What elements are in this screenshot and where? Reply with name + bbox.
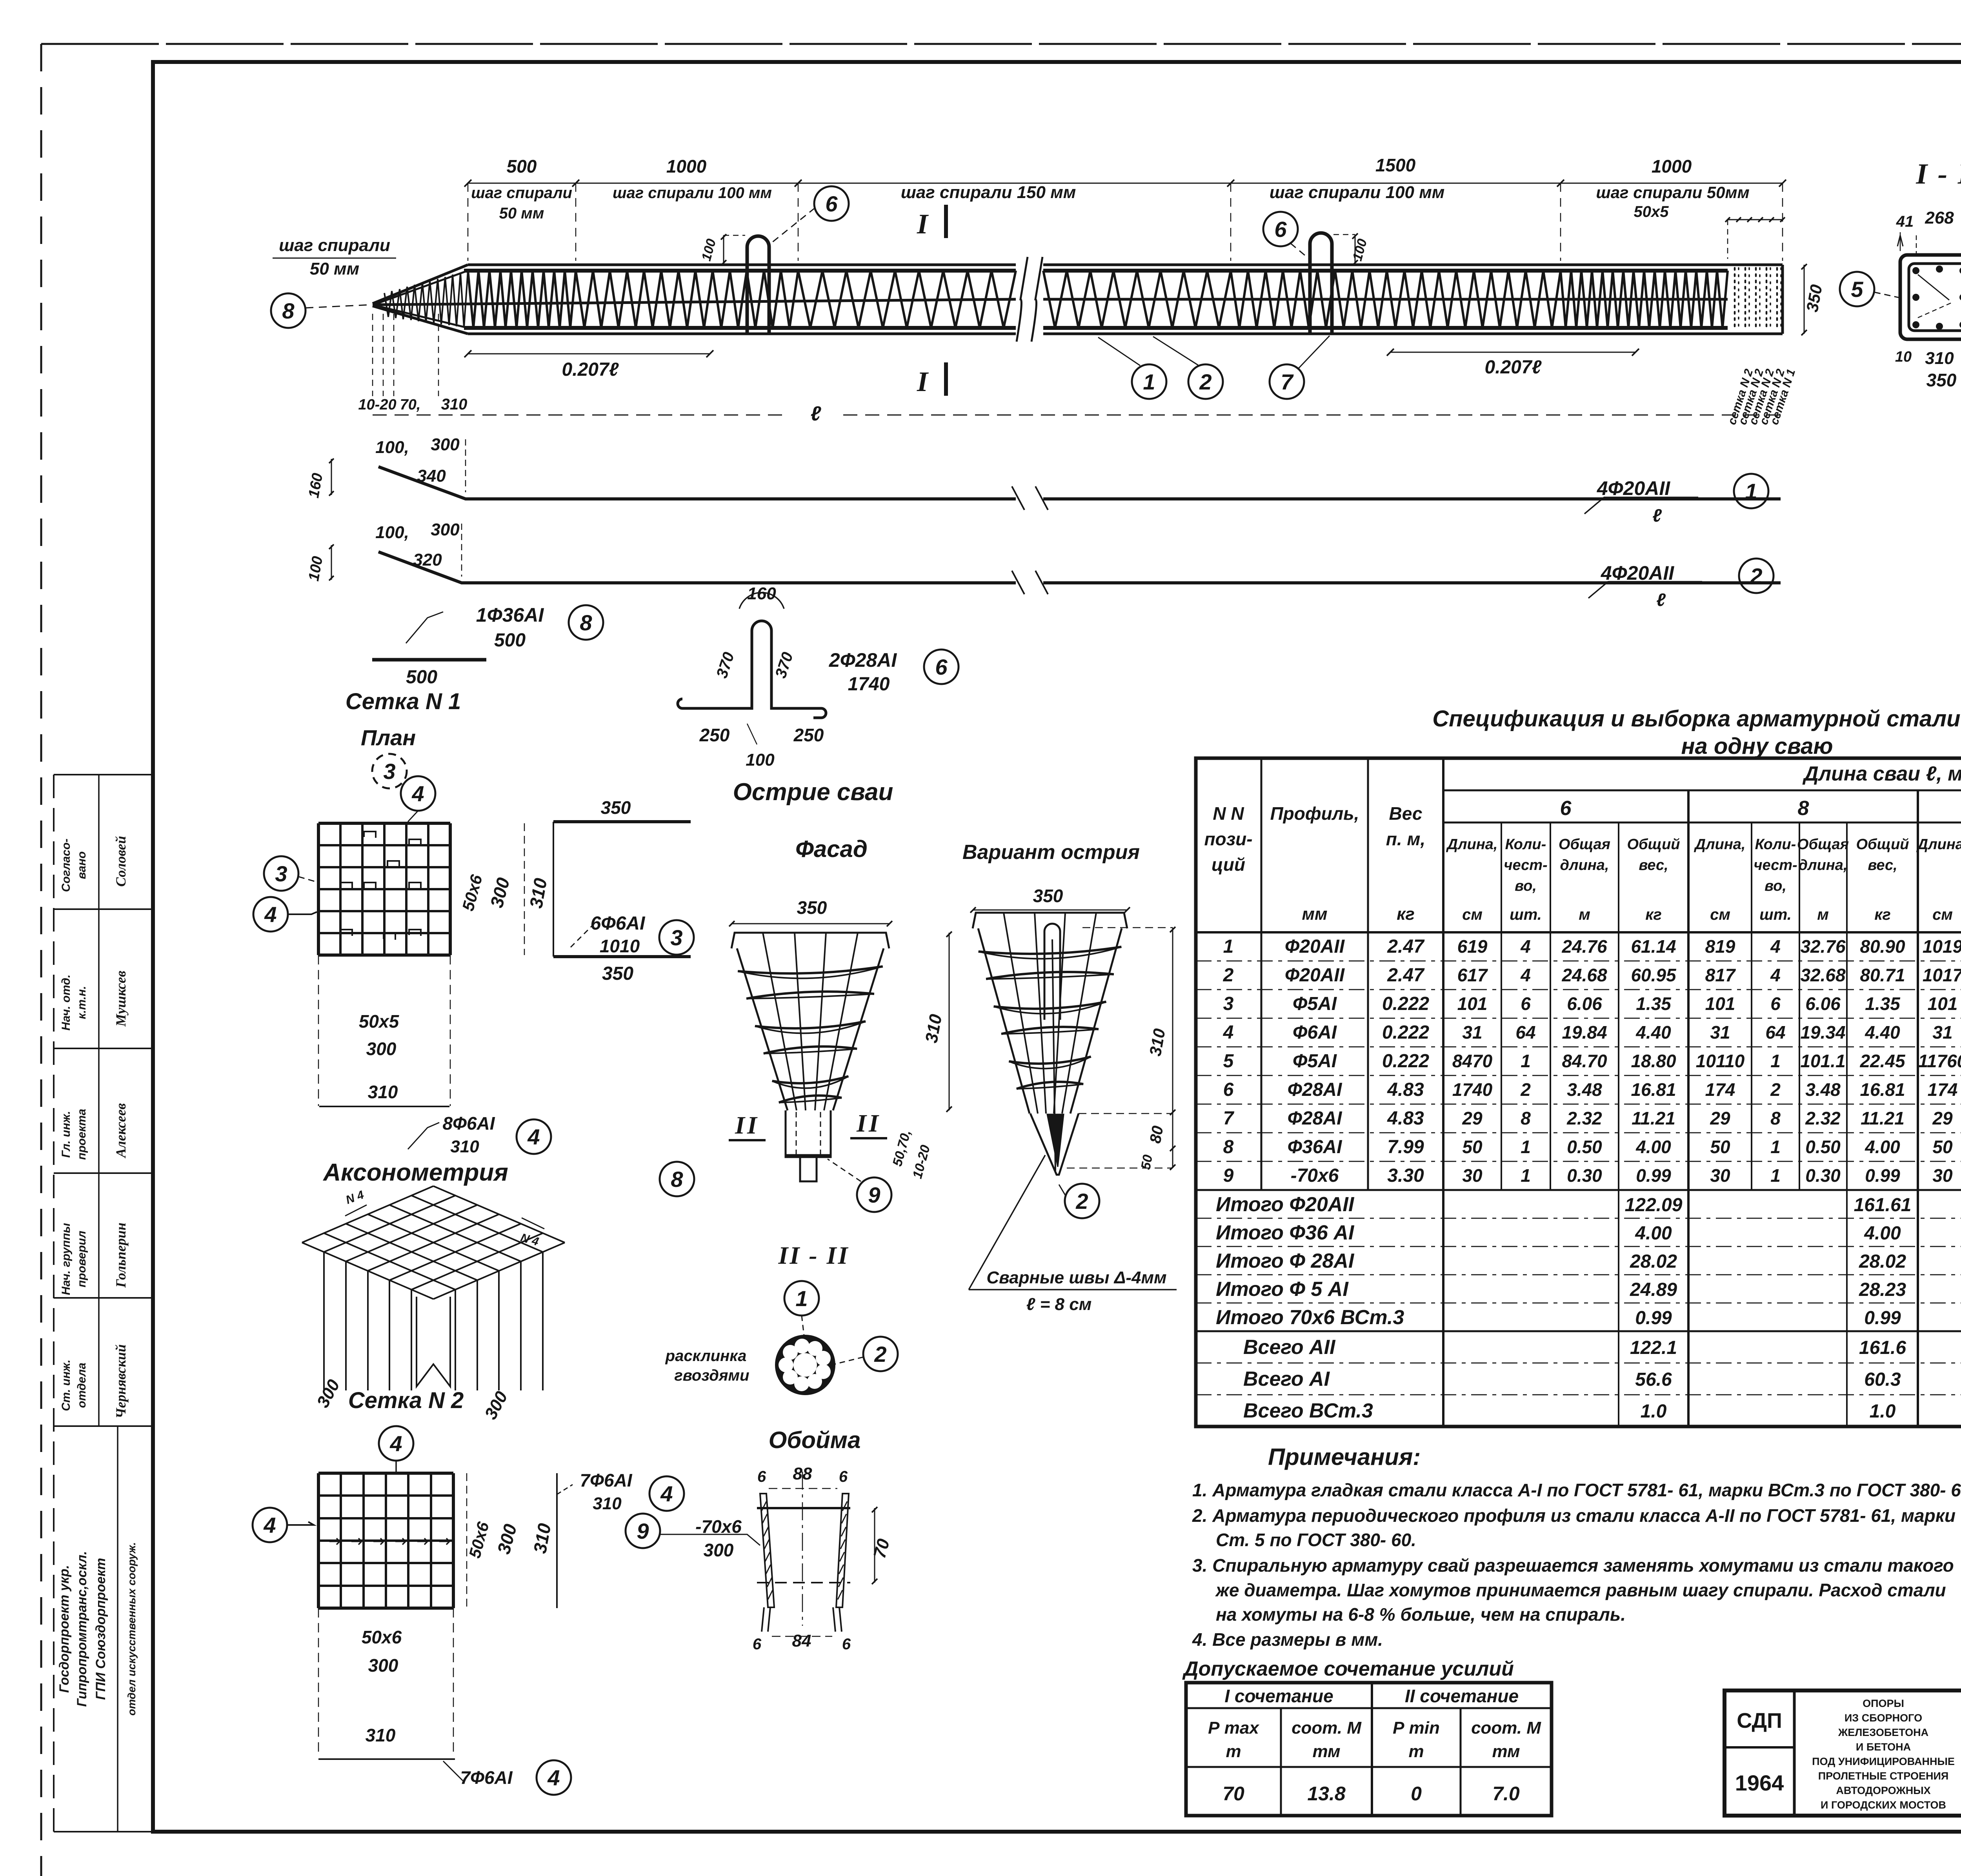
svg-text:3. Спиральную арматуру сва: 3. Спиральную арматуру свай разрешается … — [1192, 1555, 1954, 1576]
svg-text:Мушксев: Мушксев — [113, 971, 129, 1027]
dimension line top — [468, 183, 1783, 184]
svg-text:50х5: 50х5 — [359, 1011, 400, 1032]
svg-text:Сварные швы Δ-4мм: Сварные швы Δ-4мм — [986, 1268, 1166, 1287]
spiral zigzag 100mm right — [1231, 271, 1561, 328]
svg-text:Острие сваи: Острие сваи — [733, 779, 893, 806]
svg-text:4.83: 4.83 — [1387, 1079, 1424, 1100]
svg-text:Вариант острия: Вариант острия — [962, 841, 1140, 864]
svg-text:161.61: 161.61 — [1854, 1195, 1912, 1215]
svg-text:500: 500 — [507, 156, 537, 177]
svg-text:тм: тм — [1492, 1742, 1520, 1761]
N1 bottom dims — [318, 955, 319, 1106]
svg-text:проверил: проверил — [75, 1230, 88, 1287]
svg-text:350: 350 — [602, 963, 633, 984]
svg-text:80.71: 80.71 — [1860, 965, 1905, 985]
svg-text:6.06: 6.06 — [1805, 993, 1841, 1014]
svg-text:кг: кг — [1397, 904, 1415, 924]
svg-text:чест-: чест- — [1504, 857, 1547, 873]
svg-text:ЖЕЛЕЗОБЕТОНА: ЖЕЛЕЗОБЕТОНА — [1838, 1727, 1928, 1738]
svg-text:7: 7 — [1223, 1108, 1235, 1129]
callout 4 above N2 — [379, 1426, 413, 1461]
svg-text:4: 4 — [1520, 965, 1531, 985]
svg-text:30: 30 — [1710, 1165, 1730, 1186]
svg-text:101.1: 101.1 — [1800, 1051, 1845, 1071]
svg-text:310: 310 — [366, 1725, 396, 1745]
svg-text:4.40: 4.40 — [1865, 1022, 1900, 1043]
svg-text:Ф28АΙ: Ф28АΙ — [1288, 1108, 1343, 1129]
bar pos2 polyline — [378, 552, 1016, 583]
svg-text:Общая: Общая — [1559, 836, 1610, 853]
svg-text:30: 30 — [1932, 1165, 1953, 1186]
svg-text:проекта: проекта — [75, 1109, 88, 1160]
svg-text:Длина,: Длина, — [1916, 836, 1961, 853]
svg-text:24.76: 24.76 — [1561, 936, 1607, 957]
dim 100 hook right — [1355, 235, 1356, 264]
callout 4 left N2 — [253, 1508, 287, 1542]
svg-text:80: 80 — [1147, 1125, 1167, 1145]
svg-text:1: 1 — [1521, 1165, 1531, 1186]
svg-text:300: 300 — [368, 1655, 398, 1676]
svg-text:84.70: 84.70 — [1562, 1051, 1607, 1071]
svg-text:310: 310 — [441, 396, 468, 413]
svg-text:31: 31 — [1710, 1022, 1730, 1043]
svg-text:1017: 1017 — [1923, 965, 1961, 985]
svg-text:пози-: пози- — [1204, 829, 1252, 849]
svg-text:6: 6 — [1770, 993, 1781, 1014]
svg-text:4.83: 4.83 — [1387, 1108, 1424, 1129]
svg-text:Всего ВСт.3: Всего ВСт.3 — [1243, 1399, 1373, 1422]
svg-text:Обойма: Обойма — [769, 1427, 861, 1453]
svg-text:шаг спирали: шаг спирали — [279, 236, 390, 255]
callout 4 grid top — [401, 776, 435, 811]
svg-text:расклинка: расклинка — [665, 1347, 747, 1365]
svg-text:Ф20АΙΙ: Ф20АΙΙ — [1285, 936, 1345, 957]
svg-text:м: м — [1817, 906, 1829, 923]
collar dim 70 — [874, 1508, 875, 1583]
svg-text:9: 9 — [637, 1519, 649, 1543]
bar pos8 line — [372, 658, 486, 662]
svg-text:же диаметра. Шаг хомутов: же диаметра. Шаг хомутов принимается рав… — [1215, 1580, 1946, 1600]
svg-text:N N: N N — [1213, 803, 1244, 824]
svg-text:ℓ: ℓ — [1652, 505, 1662, 526]
N1 310 line — [319, 1106, 449, 1107]
svg-text:0.222: 0.222 — [1382, 1022, 1429, 1043]
svg-text:Соловей: Соловей — [113, 836, 129, 886]
svg-text:1: 1 — [795, 1286, 808, 1311]
head dim 50x5 — [1728, 219, 1783, 220]
svg-text:300: 300 — [704, 1540, 734, 1560]
section mark I bottom — [944, 362, 948, 396]
svg-text:отдел искусственных сооруж.: отдел искусственных сооруж. — [126, 1542, 138, 1716]
svg-text:4.00: 4.00 — [1864, 1223, 1901, 1244]
svg-text:0.207ℓ: 0.207ℓ — [562, 359, 619, 380]
svg-text:6: 6 — [753, 1636, 762, 1653]
svg-text:Согласо-: Согласо- — [60, 839, 73, 892]
svg-text:6: 6 — [757, 1468, 766, 1485]
pile head meshes — [1734, 268, 1736, 331]
svg-text:7Ф6АΙ: 7Ф6АΙ — [580, 1470, 632, 1490]
svg-text:11.21: 11.21 — [1861, 1108, 1905, 1128]
svg-text:ций: ций — [1212, 854, 1245, 875]
svg-text:Длина сваи ℓ, м: Длина сваи ℓ, м — [1802, 762, 1961, 785]
svg-text:2: 2 — [874, 1342, 886, 1367]
callout 4 left — [253, 897, 288, 932]
svg-text:100,: 100, — [375, 523, 409, 542]
svg-text:350: 350 — [1033, 886, 1063, 906]
svg-text:41: 41 — [1896, 213, 1914, 230]
svg-text:2.32: 2.32 — [1566, 1108, 1602, 1128]
svg-text:4Ф20АΙΙ: 4Ф20АΙΙ — [1597, 477, 1670, 499]
svg-text:длина,: длина, — [1560, 857, 1609, 873]
svg-text:310: 310 — [450, 1137, 479, 1156]
svg-text:6: 6 — [1223, 1079, 1234, 1100]
callout 3 left — [264, 856, 298, 891]
svg-text:122.09: 122.09 — [1625, 1195, 1683, 1215]
svg-text:Ф6АΙ: Ф6АΙ — [1293, 1022, 1337, 1043]
svg-text:АВТОДОРОЖНЫХ: АВТОДОРОЖНЫХ — [1836, 1785, 1930, 1796]
svg-text:4Ф20АΙΙ: 4Ф20АΙΙ — [1601, 562, 1674, 584]
collar side plates — [760, 1494, 774, 1607]
svg-text:101: 101 — [1928, 993, 1958, 1014]
svg-text:на хомуты на 6-8 % больш: на хомуты на 6-8 % больше, чем на спирал… — [1216, 1604, 1626, 1625]
callout 8 pile tip — [271, 293, 306, 328]
svg-text:0.99: 0.99 — [1635, 1308, 1672, 1328]
svg-text:32.76: 32.76 — [1800, 936, 1846, 957]
svg-text:на одну сваю: на одну сваю — [1681, 733, 1833, 759]
svg-text:268: 268 — [1925, 208, 1954, 227]
section rebar dots — [1912, 267, 1919, 274]
svg-text:350: 350 — [797, 897, 827, 918]
svg-text:мм: мм — [1302, 904, 1327, 924]
svg-text:817: 817 — [1705, 965, 1736, 985]
callout 2 variant — [1065, 1184, 1099, 1218]
facade collar — [786, 1110, 831, 1157]
svg-text:Р min: Р min — [1393, 1718, 1440, 1738]
svg-text:8: 8 — [1521, 1108, 1531, 1128]
svg-text:2.32: 2.32 — [1805, 1108, 1841, 1128]
callout 5 — [1840, 272, 1874, 306]
svg-text:Коли-: Коли- — [1505, 836, 1546, 853]
svg-text:50 мм: 50 мм — [499, 205, 544, 222]
svg-text:70: 70 — [1222, 1783, 1244, 1805]
svg-text:1: 1 — [1770, 1165, 1781, 1186]
svg-text:Длина,: Длина, — [1694, 836, 1746, 853]
svg-text:8470: 8470 — [1452, 1051, 1493, 1071]
svg-text:Длина,: Длина, — [1446, 836, 1498, 853]
pile middle bar — [373, 299, 1016, 305]
head dim 350 — [1804, 265, 1805, 334]
svg-text:СДП: СДП — [1737, 1709, 1782, 1732]
svg-text:174: 174 — [1705, 1079, 1735, 1100]
svg-text:4.00: 4.00 — [1635, 1137, 1671, 1157]
svg-text:Всего АΙΙ: Всего АΙΙ — [1243, 1336, 1336, 1359]
svg-text:24.68: 24.68 — [1561, 965, 1607, 985]
svg-text:7.0: 7.0 — [1492, 1783, 1520, 1805]
svg-text:50 мм: 50 мм — [310, 259, 359, 278]
svg-text:350: 350 — [601, 797, 631, 818]
svg-text:Фасад: Фасад — [795, 836, 868, 862]
svg-text:50: 50 — [1462, 1137, 1483, 1157]
spiral zigzag 100mm left — [576, 271, 798, 328]
svg-text:шт.: шт. — [1510, 906, 1542, 923]
svg-text:соот. М: соот. М — [1292, 1718, 1362, 1738]
svg-text:310: 310 — [1925, 349, 1954, 368]
svg-text:Ф5АΙ: Ф5АΙ — [1293, 993, 1337, 1014]
svg-text:Итого Ф20АΙΙ: Итого Ф20АΙΙ — [1216, 1193, 1355, 1216]
svg-text:6.06: 6.06 — [1567, 993, 1602, 1014]
pile taper bars — [376, 271, 468, 304]
svg-text:I: I — [917, 366, 929, 397]
svg-text:1.35: 1.35 — [1865, 993, 1901, 1014]
svg-text:300: 300 — [366, 1039, 397, 1059]
callout 2 pile — [1188, 364, 1223, 399]
svg-text:шт.: шт. — [1759, 906, 1792, 923]
svg-text:5: 5 — [1851, 277, 1863, 302]
dim 0.207L right — [1390, 352, 1635, 353]
svg-text:вано: вано — [75, 852, 88, 879]
svg-text:Гольперин: Гольперин — [113, 1223, 129, 1288]
svg-text:ОПОРЫ: ОПОРЫ — [1863, 1698, 1904, 1709]
svg-text:-70х6: -70х6 — [1291, 1165, 1339, 1186]
axon tiny marks — [345, 1205, 367, 1216]
svg-text:30: 30 — [1462, 1165, 1483, 1186]
spec table — [1196, 758, 1961, 1427]
svg-text:619: 619 — [1457, 936, 1488, 957]
svg-text:И ГОРОДСКИХ МОСТОВ: И ГОРОДСКИХ МОСТОВ — [1821, 1799, 1946, 1811]
svg-text:6: 6 — [825, 191, 838, 216]
svg-text:1019: 1019 — [1923, 936, 1961, 957]
mesh N1 hook marks — [340, 883, 352, 889]
svg-text:50: 50 — [1138, 1154, 1155, 1171]
svg-text:Общий: Общий — [1856, 836, 1909, 853]
svg-text:Р mах: Р mах — [1208, 1718, 1259, 1738]
callout 8 facade — [660, 1162, 694, 1196]
svg-text:4: 4 — [1770, 936, 1781, 957]
svg-text:2: 2 — [1223, 965, 1234, 986]
svg-text:шаг спирали 150 мм: шаг спирали 150 мм — [901, 183, 1076, 202]
svg-text:Всего АΙ: Всего АΙ — [1243, 1368, 1330, 1390]
callout 6 left — [814, 186, 849, 221]
svg-text:56.6: 56.6 — [1635, 1369, 1672, 1390]
svg-text:соот. М: соот. М — [1471, 1718, 1541, 1738]
sheet outer border — [40, 44, 42, 1876]
svg-text:0.30: 0.30 — [1805, 1165, 1841, 1186]
callout 3 grid — [372, 754, 407, 788]
collar bottom dashed — [757, 1582, 850, 1583]
svg-text:174: 174 — [1928, 1079, 1958, 1100]
callout 6 right — [1263, 212, 1298, 246]
svg-text:16.81: 16.81 — [1631, 1079, 1676, 1100]
svg-text:4: 4 — [660, 1481, 673, 1506]
svg-text:6: 6 — [935, 655, 948, 679]
svg-text:0.50: 0.50 — [1805, 1137, 1841, 1157]
svg-text:2. Арматура периодического: 2. Арматура периодического профиля из ст… — [1192, 1505, 1956, 1526]
svg-text:1Ф36АΙ: 1Ф36АΙ — [476, 604, 544, 626]
svg-text:500: 500 — [494, 630, 526, 651]
svg-text:1: 1 — [1745, 479, 1757, 504]
svg-text:м: м — [1579, 906, 1590, 923]
svg-text:84: 84 — [792, 1631, 811, 1650]
svg-text:310: 310 — [368, 1082, 398, 1102]
weld note — [969, 1155, 1045, 1290]
svg-text:0.99: 0.99 — [1636, 1165, 1671, 1186]
svg-text:1.35: 1.35 — [1636, 993, 1672, 1014]
svg-text:Ф20АΙΙ: Ф20АΙΙ — [1285, 965, 1345, 986]
svg-text:ℓ = 8 см: ℓ = 8 см — [1026, 1295, 1092, 1314]
svg-text:100: 100 — [746, 750, 775, 770]
svg-text:819: 819 — [1705, 936, 1735, 957]
pile top bar — [464, 269, 1016, 273]
svg-text:122.1: 122.1 — [1630, 1337, 1677, 1358]
svg-text:во,: во, — [1765, 878, 1786, 894]
lifting hook right (pos 6) — [1310, 233, 1332, 334]
svg-text:вес,: вес, — [1868, 857, 1897, 873]
svg-text:4.40: 4.40 — [1635, 1022, 1671, 1043]
svg-text:22.45: 22.45 — [1859, 1051, 1906, 1071]
svg-text:4: 4 — [1223, 1022, 1234, 1043]
svg-text:24.89: 24.89 — [1630, 1279, 1677, 1300]
section dim 41 268 41 top — [1900, 219, 1961, 220]
svg-text:18.80: 18.80 — [1631, 1051, 1676, 1071]
svg-text:к.т.н.: к.т.н. — [75, 986, 88, 1019]
svg-text:10110: 10110 — [1696, 1051, 1745, 1071]
svg-text:2Ф28АΙ: 2Ф28АΙ — [829, 649, 897, 671]
svg-text:60.95: 60.95 — [1631, 965, 1677, 985]
svg-text:3: 3 — [1223, 993, 1234, 1014]
svg-text:8: 8 — [1798, 797, 1809, 820]
svg-text:4: 4 — [1520, 936, 1531, 957]
callout 1 pile — [1132, 364, 1166, 399]
svg-text:II - II: II - II — [778, 1241, 850, 1269]
mesh N1 grid — [318, 822, 450, 825]
svg-text:План: План — [361, 725, 416, 750]
svg-text:1: 1 — [1143, 369, 1155, 394]
svg-text:п. м,: п. м, — [1386, 829, 1425, 849]
variant steel tip — [1030, 1114, 1079, 1175]
svg-text:1.0: 1.0 — [1641, 1401, 1667, 1422]
svg-text:61.14: 61.14 — [1631, 936, 1676, 957]
svg-text:ГПИ Союздорпроект: ГПИ Союздорпроект — [93, 1558, 108, 1700]
svg-text:Итого Ф36 АΙ: Итого Ф36 АΙ — [1216, 1221, 1355, 1244]
svg-text:ПОД УНИФИЦИРОВАННЫЕ: ПОД УНИФИЦИРОВАННЫЕ — [1812, 1756, 1955, 1767]
axon legs — [323, 1252, 325, 1390]
svg-text:617: 617 — [1457, 965, 1488, 985]
svg-text:80.90: 80.90 — [1860, 936, 1905, 957]
svg-text:2: 2 — [1199, 369, 1212, 394]
svg-text:Профиль,: Профиль, — [1270, 803, 1359, 824]
svg-text:0.222: 0.222 — [1382, 993, 1429, 1014]
svg-text:II: II — [856, 1109, 881, 1137]
svg-text:4: 4 — [263, 1513, 276, 1538]
svg-text:Допускаемое сочетание усил: Допускаемое сочетание усилий — [1182, 1658, 1514, 1680]
N2 side dims — [466, 1473, 468, 1608]
svg-text:3: 3 — [275, 861, 287, 886]
pile tip facade cone — [731, 933, 889, 948]
svg-text:Итого Ф 5 АΙ: Итого Ф 5 АΙ — [1216, 1278, 1349, 1301]
svg-text:50х6: 50х6 — [362, 1627, 402, 1647]
svg-text:250: 250 — [699, 725, 730, 745]
svg-text:300: 300 — [431, 435, 460, 454]
hook dim 160 — [739, 593, 784, 609]
svg-text:ИЗ СБОРНОГО: ИЗ СБОРНОГО — [1845, 1712, 1922, 1724]
svg-text:6: 6 — [1560, 797, 1572, 820]
svg-text:Сетка N 1: Сетка N 1 — [346, 689, 461, 714]
svg-text:чест-: чест- — [1754, 857, 1797, 873]
svg-text:28.02: 28.02 — [1630, 1251, 1677, 1272]
svg-text:50: 50 — [1932, 1137, 1953, 1157]
svg-text:Ст. инж.: Ст. инж. — [60, 1359, 73, 1411]
section I-I square — [1900, 255, 1961, 339]
svg-text:0.99: 0.99 — [1864, 1308, 1901, 1328]
pile bottom bar — [464, 326, 1016, 330]
svg-text:4: 4 — [547, 1765, 560, 1790]
svg-text:50х5: 50х5 — [1634, 203, 1669, 220]
svg-text:шаг спирали 100 мм: шаг спирали 100 мм — [613, 184, 772, 202]
svg-text:8Ф6АΙ: 8Ф6АΙ — [442, 1113, 495, 1134]
svg-text:1000: 1000 — [666, 156, 707, 177]
svg-text:9: 9 — [868, 1183, 880, 1207]
pile elevation outline — [373, 265, 468, 304]
svg-text:0.222: 0.222 — [1382, 1051, 1429, 1072]
svg-text:Сетка N 2: Сетка N 2 — [348, 1388, 464, 1413]
svg-text:250: 250 — [793, 725, 824, 745]
svg-text:Чернявский: Чернявский — [113, 1344, 129, 1418]
dim 100 hook left — [723, 235, 724, 264]
svg-text:300: 300 — [431, 520, 460, 539]
svg-text:1: 1 — [1521, 1137, 1531, 1157]
svg-text:4: 4 — [527, 1125, 540, 1149]
spiral zigzag 150mm mid-right — [1043, 271, 1231, 328]
svg-text:Нач. группы: Нач. группы — [60, 1223, 73, 1295]
svg-text:Госдорпроект укр.: Госдорпроект укр. — [57, 1565, 72, 1693]
svg-text:28.23: 28.23 — [1859, 1279, 1906, 1300]
svg-text:1.0: 1.0 — [1870, 1401, 1896, 1422]
svg-text:1: 1 — [1770, 1051, 1781, 1071]
spiral zigzag 50mm right — [1561, 271, 1728, 328]
dim 0.207L left — [468, 353, 710, 355]
svg-text:0.99: 0.99 — [1865, 1165, 1900, 1186]
svg-text:6: 6 — [1521, 993, 1531, 1014]
svg-text:т: т — [1408, 1742, 1424, 1761]
svg-text:шаг спирали 100 мм: шаг спирали 100 мм — [1270, 183, 1445, 202]
svg-text:3.30: 3.30 — [1387, 1165, 1424, 1186]
collar top band line — [757, 1507, 850, 1509]
hook detail pos6 — [678, 621, 826, 718]
svg-text:кг: кг — [1645, 906, 1662, 923]
svg-text:70,: 70, — [400, 397, 421, 413]
svg-text:100,: 100, — [375, 438, 409, 457]
svg-text:8: 8 — [1770, 1108, 1781, 1128]
svg-text:0.207ℓ: 0.207ℓ — [1485, 357, 1542, 378]
svg-text:И БЕТОНА: И БЕТОНА — [1856, 1741, 1911, 1753]
callout 9 facade — [857, 1177, 891, 1212]
dim L overall — [373, 415, 788, 416]
svg-text:64: 64 — [1515, 1022, 1535, 1043]
signature table — [53, 775, 55, 1832]
svg-text:шаг спирали 50мм: шаг спирали 50мм — [1596, 183, 1749, 202]
lifting hook left (pos 6) — [747, 236, 769, 334]
svg-text:8: 8 — [580, 610, 592, 635]
svg-text:3.48: 3.48 — [1567, 1079, 1602, 1100]
svg-text:1500: 1500 — [1375, 155, 1416, 175]
svg-text:0.50: 0.50 — [1567, 1137, 1602, 1157]
svg-text:320: 320 — [413, 550, 442, 570]
svg-text:Гипропромтранс,оскл.: Гипропромтранс,оскл. — [75, 1551, 89, 1707]
facade dim 310 — [949, 933, 950, 1110]
svg-text:ПРОЛЕТНЫЕ СТРОЕНИЯ: ПРОЛЕТНЫЕ СТРОЕНИЯ — [1818, 1770, 1949, 1782]
svg-text:31: 31 — [1932, 1022, 1952, 1043]
svg-text:340: 340 — [417, 466, 446, 486]
